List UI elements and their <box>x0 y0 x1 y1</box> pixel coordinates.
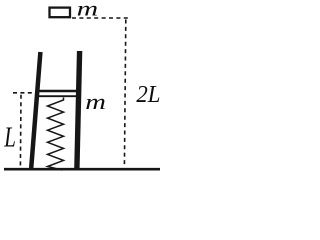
svg-text:m: m <box>77 0 99 20</box>
svg-text:L: L <box>3 121 15 153</box>
svg-text:m: m <box>85 89 106 114</box>
svg-text:2L: 2L <box>136 81 160 108</box>
